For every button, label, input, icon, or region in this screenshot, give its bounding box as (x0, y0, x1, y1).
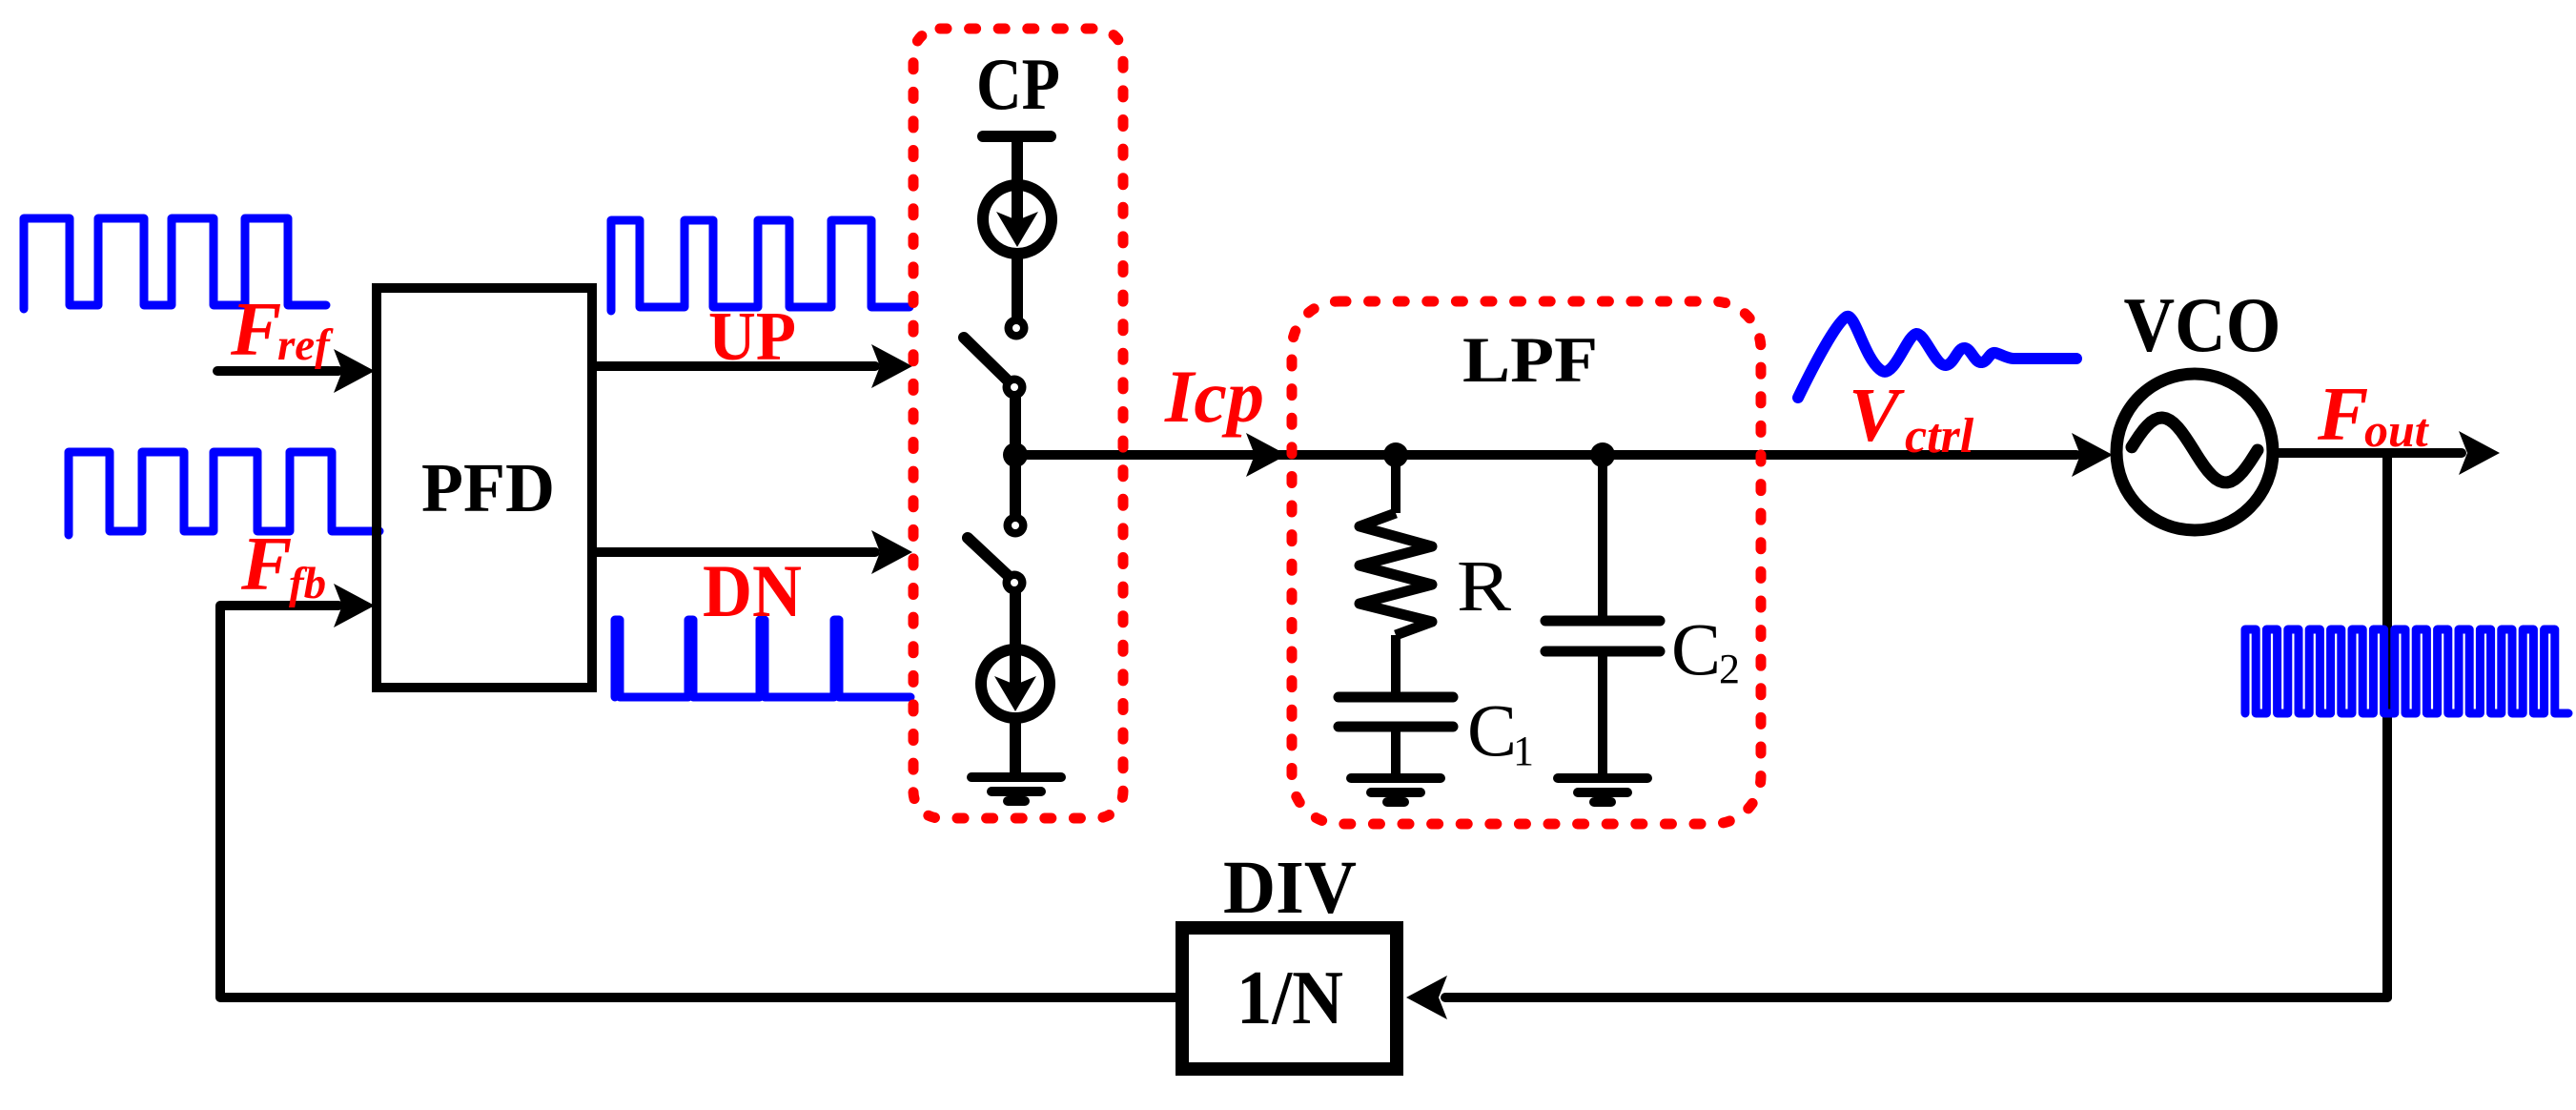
capacitor C2 (1545, 621, 1660, 651)
wire DN PFD to CP (597, 547, 875, 557)
svg-text:PFD: PFD (421, 449, 555, 526)
svg-text:F: F (240, 523, 292, 606)
wire (1391, 455, 1400, 513)
wire (1010, 455, 1021, 516)
dashed box LPF (1292, 301, 1761, 824)
wire Fref input (217, 366, 338, 376)
wire feedback to DIV (1445, 993, 2387, 1002)
svg-text:C: C (1467, 689, 1517, 771)
wire (1598, 651, 1607, 774)
svg-text:fb: fb (289, 559, 326, 608)
CP supply bar (983, 131, 1051, 142)
svg-text:out: out (2364, 403, 2430, 457)
waveform UP pulses (611, 220, 910, 311)
node R branch (1383, 442, 1408, 467)
svg-text:DN: DN (703, 549, 802, 632)
current source down (CP) (981, 603, 1050, 718)
svg-text:ctrl: ctrl (1905, 409, 1974, 463)
svg-text:1/N: 1/N (1237, 956, 1343, 1040)
block DIV 1/N (1182, 928, 1397, 1069)
arrowhead Fout output (2459, 431, 2500, 475)
wire (1012, 258, 1023, 319)
ground (CP) (971, 777, 1061, 801)
svg-text:F: F (2317, 373, 2368, 457)
block PFD (377, 288, 592, 688)
resistor R (1360, 513, 1432, 635)
switch UP lever (964, 338, 1011, 383)
capacitor C1 (1339, 697, 1453, 727)
VCO sine symbol (2132, 418, 2258, 483)
svg-text:2: 2 (1719, 646, 1740, 692)
wire Icp/Vctrl main line CP to VCO (1015, 450, 2076, 460)
arrowhead into DIV (1406, 976, 1447, 1019)
arrowhead Ffb (334, 584, 375, 627)
svg-text:LPF: LPF (1462, 323, 1598, 396)
wire Ffb input + feedback left/bottom (220, 606, 1176, 997)
wire Fout feedback vertical (2382, 453, 2392, 997)
waveform Ffb square wave (69, 452, 379, 535)
wire (1391, 727, 1400, 774)
svg-text:V: V (1849, 374, 1905, 458)
svg-text:DIV: DIV (1223, 847, 1357, 930)
wire (1010, 723, 1021, 774)
node C2 branch (1590, 442, 1615, 467)
wire (1598, 455, 1607, 621)
arrowhead UP (871, 344, 912, 388)
waveform DN pulses (615, 620, 910, 697)
wire UP PFD to CP (597, 361, 875, 371)
svg-text:VCO: VCO (2124, 281, 2281, 368)
waveform Vctrl damped oscillation (1798, 317, 2076, 398)
switch DN contact bottom (1003, 571, 1027, 595)
dashed box CP (913, 29, 1123, 818)
ground (C1) (1351, 778, 1441, 802)
current source up (CP) (983, 138, 1052, 254)
wire (1010, 395, 1021, 455)
wire (1010, 591, 1021, 645)
svg-text:ref: ref (277, 320, 334, 370)
waveform Fref square wave (24, 218, 326, 309)
svg-text:UP: UP (708, 298, 796, 375)
arrowhead Icp into LPF (1246, 433, 1287, 477)
switch DN lever (968, 538, 1012, 580)
arrowhead Fref (334, 349, 375, 393)
junction node Icp (1003, 442, 1028, 467)
arrowhead DN (871, 530, 912, 574)
switch UP contact bottom (1003, 376, 1027, 400)
wire (1391, 635, 1400, 693)
arrowhead Vctrl into VCO (2072, 433, 2113, 477)
svg-text:CP: CP (976, 43, 1060, 125)
oscillator VCO (2116, 374, 2273, 530)
switch UP contact top (1005, 317, 1029, 340)
svg-text:1: 1 (1513, 728, 1534, 774)
svg-text:R: R (1457, 546, 1511, 627)
wire Fout VCO to output (2279, 448, 2462, 458)
ground (C2) (1558, 778, 1647, 802)
svg-text:F: F (230, 288, 281, 372)
switch DN contact top (1004, 514, 1028, 538)
svg-text:C: C (1671, 607, 1721, 690)
waveform Fout high-frequency square wave (2245, 629, 2568, 713)
svg-text:Icp: Icp (1164, 355, 1264, 438)
